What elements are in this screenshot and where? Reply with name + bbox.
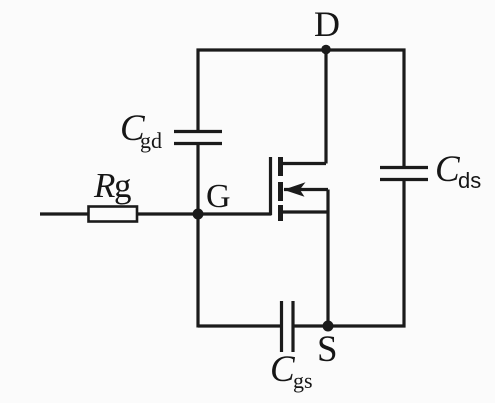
label Cds <box>435 149 481 193</box>
svg-text:gd: gd <box>140 128 162 153</box>
wire: left rail upper segment <box>196 49 199 132</box>
wire: left rail lower segment <box>196 144 199 328</box>
capacitor C_gs <box>282 301 294 352</box>
svg-text:ds: ds <box>458 168 481 193</box>
node D junction dot <box>321 45 331 55</box>
svg-text:R: R <box>93 166 115 205</box>
wire: gate node to gate <box>198 212 272 215</box>
label Rg <box>93 166 132 205</box>
label Cgs <box>270 349 313 393</box>
gate bar <box>269 157 272 215</box>
transistor Q1 (MOSFET) <box>271 157 306 221</box>
capacitor C_ds <box>380 168 428 180</box>
resistor Rg <box>89 207 138 222</box>
wire: right rail lower segment <box>402 180 405 328</box>
wire: bottom rail left segment <box>198 324 282 327</box>
body arrow <box>284 182 306 197</box>
wire: input lead <box>40 212 88 215</box>
capacitor C_gd <box>174 132 222 144</box>
wire: drain branch vertical <box>324 50 327 164</box>
svg-text:D: D <box>314 4 340 44</box>
wire: top rail (drain net) <box>197 48 406 51</box>
channel dash source <box>278 205 283 221</box>
channel dash body <box>278 182 283 201</box>
svg-text:S: S <box>317 329 338 370</box>
label Cgd <box>120 108 162 153</box>
wire: source connection horizontal <box>279 210 328 213</box>
wire: drain connection horizontal <box>279 162 326 165</box>
wire: body connection horizontal <box>284 188 328 191</box>
svg-text:gs: gs <box>293 368 313 393</box>
channel dash drain <box>278 157 283 176</box>
wire: source branch vertical <box>326 190 329 327</box>
wire: resistor to gate node <box>137 212 198 215</box>
wire: bottom rail right segment <box>293 324 406 327</box>
svg-text:g: g <box>114 166 132 205</box>
wire: right rail upper segment <box>402 49 405 168</box>
node S junction dot <box>323 321 334 332</box>
node G junction dot <box>193 209 204 220</box>
svg-text:G: G <box>206 178 231 215</box>
